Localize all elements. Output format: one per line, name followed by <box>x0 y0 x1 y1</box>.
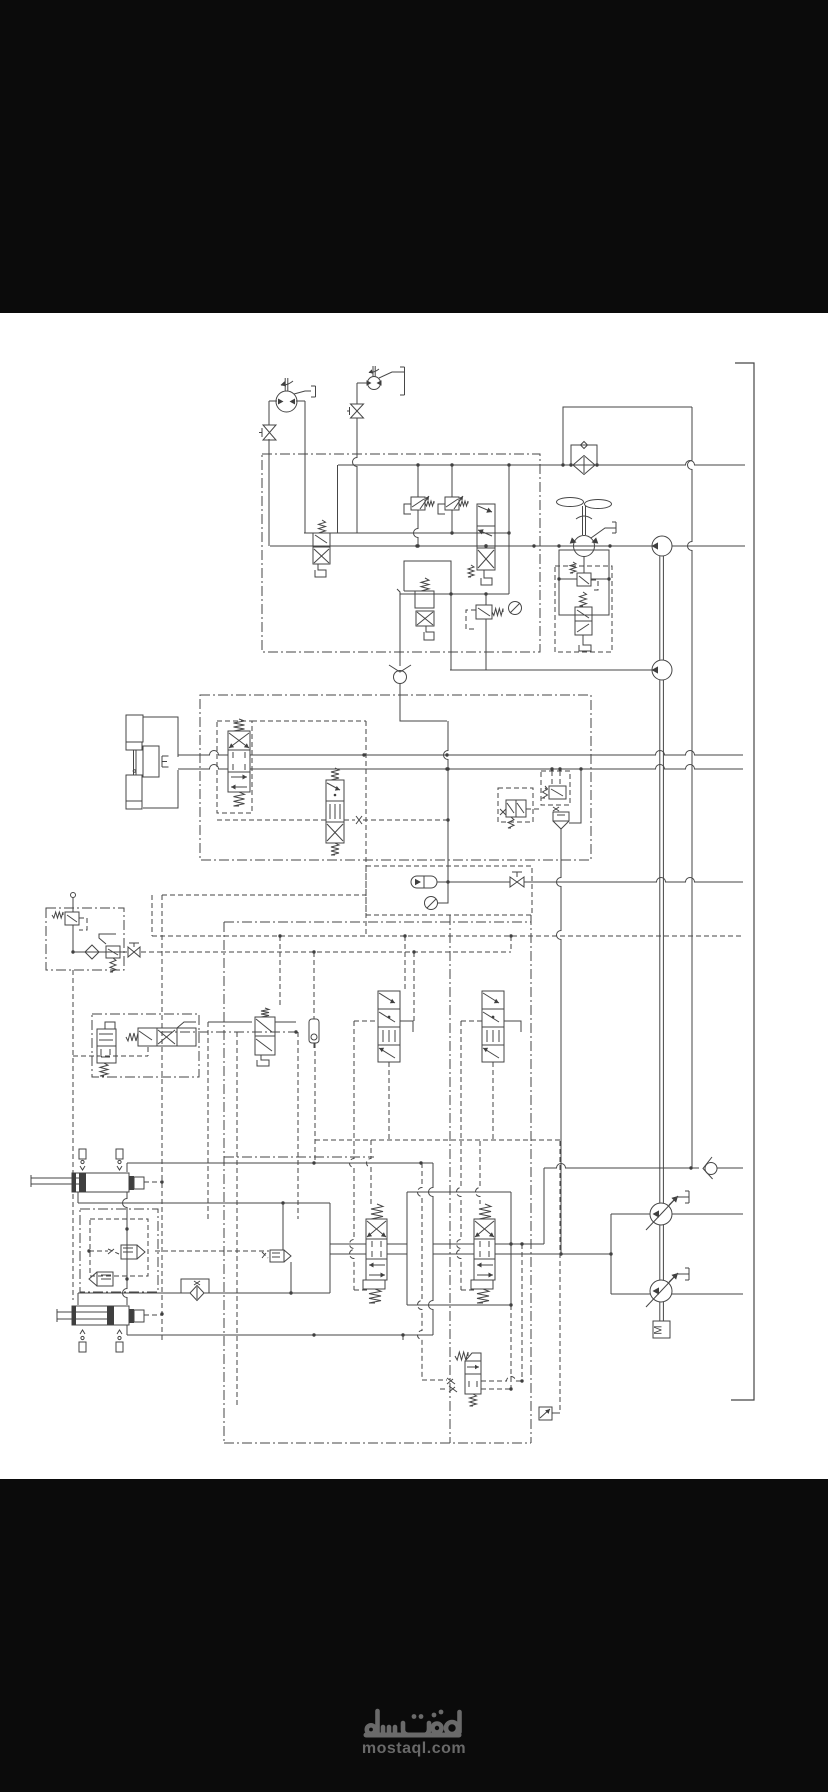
cylinder CYL1 barrel <box>72 1173 129 1192</box>
drain bracket of M1 <box>294 391 311 394</box>
wire M1 right port down x305 <box>296 400 305 402</box>
pilot dashed bus y952 <box>141 951 511 953</box>
pilot relief valve PR1 <box>476 605 492 619</box>
long dashed pilot drop x73 <box>72 970 74 1300</box>
wire y546 right of pump <box>672 545 745 547</box>
dashed stubs y1021 <box>354 1020 378 1022</box>
wire x127 through counterbalance <box>123 1192 127 1305</box>
dashed inner box top edge y721 <box>252 720 366 722</box>
bleed port symbols below CYL2 <box>80 1330 85 1334</box>
shut-off valve SV2 <box>351 404 364 411</box>
dash-dot partition y1157 <box>224 1156 374 1158</box>
cylinder CYL1 cap <box>129 1176 134 1190</box>
cylinder CYL2 dashed stub <box>144 1314 162 1316</box>
fan motor FM1 <box>574 536 595 557</box>
dash-dot boundary box 1 (cooler/fan subsystem) <box>262 454 540 652</box>
dashed drop below valve C <box>492 1062 494 1140</box>
orifice OR1 <box>309 1019 319 1043</box>
dash-dot box bottom boundary <box>223 922 225 1443</box>
wire y1244 segments <box>330 1243 366 1245</box>
shaft symbol above M1 <box>284 378 286 391</box>
dashed drop x280 to valve A <box>279 936 281 1008</box>
dashed drop x237 <box>236 1032 238 1408</box>
counterbalance block inner dashed box <box>90 1219 148 1276</box>
relief valve RV4 <box>65 912 79 925</box>
wire pump2 lines y1294 <box>611 1293 650 1295</box>
dashed edge y915 <box>366 914 531 916</box>
dashed drop x422 <box>418 1163 423 1378</box>
dashed pilot y1056 into block <box>73 1055 148 1057</box>
dash-dot edge y922 <box>224 921 531 923</box>
wire x451 riser to suction <box>450 594 452 670</box>
cylinder CYL2 barrel <box>72 1306 129 1325</box>
solenoid valve SV3 (charge unload) <box>575 607 592 621</box>
main control valve V2 (right) <box>479 1204 491 1219</box>
pressure reducing valve PRV2 <box>549 786 566 799</box>
wire pilot loop x581 <box>569 769 581 823</box>
wire RV2 vertical x452 <box>451 465 453 497</box>
wire head-side line y1203 <box>77 1192 79 1203</box>
drain bracket of FM1 <box>591 528 611 538</box>
wire x544 riser <box>543 1168 545 1244</box>
unloader valve UV1 <box>415 591 434 608</box>
solenoid valve SV5 <box>105 1022 115 1029</box>
inline check valve CV1 <box>389 665 411 672</box>
dashed drop x354 <box>350 1021 355 1290</box>
valve A (pilot shutoff) <box>261 1008 269 1017</box>
cylinder CYL1 piston <box>79 1173 86 1192</box>
dashed pilot bus y1140 <box>315 1139 560 1141</box>
wire y1022 solid feed <box>208 1021 252 1023</box>
cylinder CYL2 piston <box>107 1306 114 1325</box>
brake mechanism block (travel motor) <box>126 715 143 742</box>
brake valve V_brake <box>228 731 250 750</box>
cylinder CYL1 rod <box>31 1177 80 1179</box>
counterbalance valve CB1 <box>121 1245 137 1259</box>
wire x400 below check to y721 <box>400 684 447 722</box>
dashed drop x461 <box>457 1021 462 1290</box>
watermark arabic mostaql logo <box>366 1733 459 1738</box>
solenoid valve SV_fan (fan reverse) <box>319 520 326 533</box>
wire y1254 segments <box>330 1253 366 1255</box>
wire brake line A y755 <box>178 751 228 755</box>
solenoid box + spring below V2 <box>471 1280 493 1289</box>
solenoid valve SV4 <box>506 800 516 817</box>
wire x283 from y1203 <box>282 1203 284 1250</box>
plugged port P1 (circle with slash) <box>509 602 522 615</box>
shaft symbol above M2 <box>372 366 374 377</box>
wire y579 in cluster <box>559 578 577 580</box>
pilot dashed line y820 <box>217 819 326 821</box>
cooler loop wire right x692 (tank return riser) <box>688 407 692 1168</box>
dashed drop x560 <box>559 1141 561 1413</box>
charge relief cluster dashed box <box>555 566 612 652</box>
needle valve NV2 <box>128 947 134 957</box>
tank rail bracket (right) <box>731 363 754 1400</box>
needle valve NV1 <box>510 877 517 887</box>
relief manifold box (solid) top-middle <box>304 532 509 534</box>
dashed drop below valve B <box>388 1062 390 1140</box>
wire x400 down to check <box>397 589 400 666</box>
hydraulic motor M2 (small, top) <box>368 377 381 390</box>
wire pump1 lines y1214 <box>611 1213 650 1215</box>
cylinder CYL2 rod <box>57 1311 107 1313</box>
dashed link x511 y936-y952 <box>510 936 512 952</box>
proportional valve PV1 <box>138 1028 157 1046</box>
dashed drop x522 <box>521 1244 523 1381</box>
variable pump P1 <box>650 1203 672 1225</box>
main control valve V1 (left) <box>371 1204 383 1219</box>
dashed top edge y895 <box>162 894 366 896</box>
pilot check valve SVm <box>270 1250 284 1262</box>
solenoid box + spring below V1 <box>363 1280 385 1289</box>
wire x448 down (pilot supply riser) <box>444 721 449 882</box>
pump shaft to motor <box>659 1302 661 1321</box>
bleed port symbols above CYL1 <box>79 1149 86 1159</box>
solenoid block dash-dot box 5 <box>92 1014 199 1077</box>
charge pump CP2 (lower circle) <box>652 660 672 680</box>
dashed pilot x371 to V1 top <box>367 1140 372 1204</box>
shuttle valve V_sw (parking) <box>331 768 339 780</box>
wire suction y669 <box>450 669 652 671</box>
relief valve RV2 <box>445 497 459 510</box>
pressure gauge G1 <box>437 882 448 903</box>
pilot dashed to SV6 <box>422 1379 447 1381</box>
wire brake line B y769 <box>178 765 228 770</box>
cylinder CYL1 dashed stub <box>144 1181 162 1183</box>
cooler loop wire top <box>563 407 692 465</box>
counterbalance block dash-dot box <box>80 1209 158 1292</box>
fan shaft <box>582 506 584 535</box>
unloader loop rect <box>404 561 451 594</box>
dashed box 3 (accumulator group) <box>366 866 532 915</box>
pilot filter funnel F2 <box>553 812 569 821</box>
cooling fan blades <box>557 498 584 507</box>
wire charge line y546 (pump suction bus) <box>270 545 652 547</box>
dashed drop x314 to orifice <box>313 952 315 1019</box>
wire x509 down <box>508 465 510 594</box>
hydraulic motor M1 (fan motor top-left) <box>276 391 297 412</box>
variable pump P2 <box>650 1280 672 1302</box>
pilot relief block dash-dot box 4 <box>46 908 124 970</box>
pressure switch PS1 <box>539 1407 552 1420</box>
pilot dashed y1251 <box>155 1250 269 1252</box>
wire pilot line y465 (filter line) <box>338 461 745 466</box>
check valve CV3 with orifice bypass <box>190 1286 204 1301</box>
pump shaft double line mid <box>659 680 661 1203</box>
charge relief cluster solid box <box>559 550 609 615</box>
wire valve C tank stub <box>504 1021 521 1032</box>
dashed riser x152 <box>151 895 153 936</box>
wire y1192 bridge <box>407 1191 511 1193</box>
drain bracket of M2 <box>379 372 399 378</box>
dashed drop x315 <box>314 1043 316 1163</box>
dashed drop x511 lower <box>510 1305 512 1389</box>
electric motor M box <box>653 1321 670 1338</box>
wire corner x330 <box>329 1203 331 1293</box>
wire tank line y1168 right <box>544 1164 699 1168</box>
wire x73 to y952 <box>72 925 74 952</box>
travel pilot valve C <box>482 991 504 1009</box>
brake valve V_brake dashed box <box>217 721 252 813</box>
wire x208 drop <box>207 1022 209 1219</box>
dashed drop x405 <box>404 936 406 991</box>
wire x293 to y1293 <box>290 1262 292 1293</box>
wire y594 <box>400 593 509 595</box>
pressure reducing valve PRV3 <box>106 946 120 958</box>
wire M2 down x357 with hops <box>357 382 368 384</box>
dash-dot boundary box 2 (brake valve subsystem) <box>200 695 591 860</box>
filter F1 with bypass check <box>573 456 595 475</box>
charge pump CP1 <box>652 536 672 556</box>
dashed drop x480 <box>476 1141 481 1204</box>
wire valve B tank stub <box>400 1021 413 1032</box>
check valve D1 <box>85 945 99 959</box>
accumulator ACC1 <box>411 876 437 888</box>
dash-dot pilot y1032 <box>162 1031 296 1033</box>
wire y1305 <box>407 1304 511 1306</box>
vent cap above <box>71 893 76 898</box>
pilot cluster dashed box (right) <box>541 771 570 805</box>
x-mark on PRV2 pilot <box>553 807 559 811</box>
pilot dashed bus y936 <box>152 935 744 937</box>
wire boom line y1293 <box>78 1292 190 1294</box>
wire M1 left port down x269 <box>269 400 277 402</box>
travel pilot valve B <box>378 991 400 1009</box>
wire x486 <box>485 594 487 605</box>
dashed drop x366 <box>365 721 367 936</box>
wire x511 <box>510 1192 512 1305</box>
wire rod-side line y1163 <box>126 1163 128 1172</box>
dashed drop x414 to valve B stub <box>413 952 415 1022</box>
shut-off valve SV1 <box>263 425 276 433</box>
long dashed pilot drop x162 <box>161 895 163 1340</box>
pump shaft double line upper <box>659 556 661 660</box>
cylinder CYL2 cap <box>129 1309 134 1323</box>
wire y952 solid <box>73 951 127 953</box>
wire y1335 <box>126 1325 128 1335</box>
wire x561 pilot supply down <box>557 829 562 1254</box>
main control valve V_top <box>477 504 495 526</box>
pilot taps above PRV2 <box>550 767 553 770</box>
solenoid valve SV6 (bottom) <box>466 1353 481 1361</box>
check valve CV2 (on y1168) <box>703 1157 713 1179</box>
solenoid valve SV4 dashed box <box>498 788 533 822</box>
wire RV1 vertical x418 <box>417 465 419 497</box>
wire x584 circles to RV3 <box>583 556 585 573</box>
counterbalance valve CB2 <box>97 1272 113 1286</box>
wire pump loop x611 <box>610 1214 612 1294</box>
wire x433 drop from y1163 <box>429 1163 434 1335</box>
relief valve RV3 (charge) <box>577 573 591 586</box>
spring below RV3 <box>580 592 587 606</box>
dash-dot inner vertical x450 <box>449 915 451 1443</box>
dashed drop x298 <box>297 1032 299 1219</box>
relief valve RV1 <box>411 497 425 510</box>
wire x407 crossover <box>406 1192 408 1305</box>
wire accumulator line y882 <box>437 881 448 883</box>
wire corner x338 <box>337 465 339 533</box>
